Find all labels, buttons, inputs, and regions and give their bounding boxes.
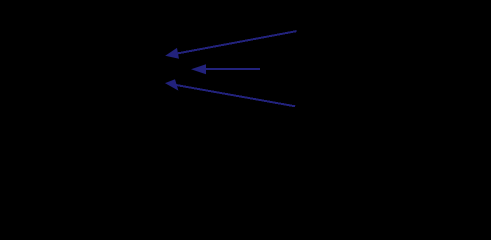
arrow A3 (bottom): [165, 79, 295, 106]
arrow A2 (middle): [191, 64, 260, 74]
arrow A1 (top): [165, 31, 296, 59]
